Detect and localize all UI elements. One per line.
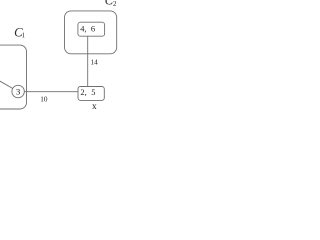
cluster C1 box <box>0 45 27 109</box>
svg-text:5: 5 <box>91 88 95 97</box>
svg-text:1: 1 <box>22 32 26 40</box>
svg-text:10: 10 <box>40 96 48 104</box>
node (4,6) box <box>78 22 105 36</box>
svg-text:2,: 2, <box>80 88 86 97</box>
svg-text:14: 14 <box>91 59 99 67</box>
svg-text:4,: 4, <box>80 24 86 33</box>
cluster C2 box <box>65 11 117 54</box>
wire: horizontal edge node 3 to node (2,5) <box>24 91 78 93</box>
svg-text:3: 3 <box>16 87 20 97</box>
node 3 (circle) <box>12 85 24 97</box>
svg-text:2: 2 <box>113 0 117 8</box>
wire: vertical edge node (4,6) to node (2,5) <box>87 36 89 86</box>
wire: diagonal edge entering from left to node 3 <box>0 81 13 88</box>
svg-text:x: x <box>92 102 97 112</box>
svg-text:6: 6 <box>91 24 95 33</box>
background <box>0 0 120 120</box>
node (2,5) box <box>78 87 104 101</box>
